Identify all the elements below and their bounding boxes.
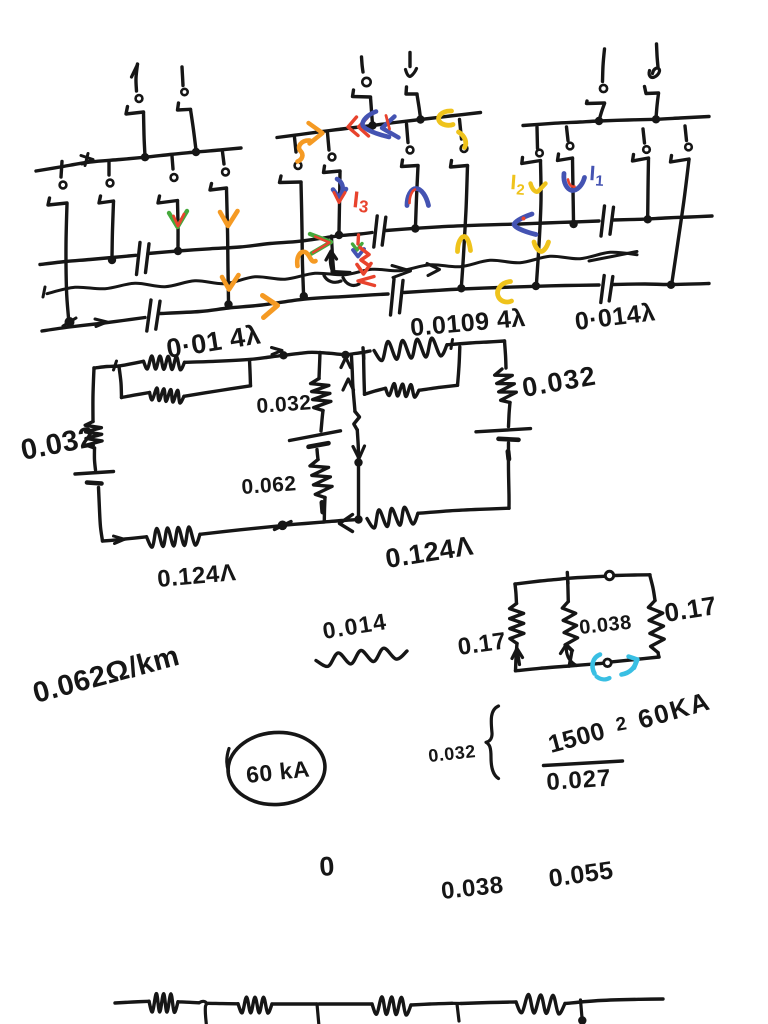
- wire F6 drop to bus: [656, 94, 659, 119]
- wire left edge to battery: [94, 448, 95, 470]
- blue left chevron 2: [382, 117, 399, 138]
- feeder lead F6 right: [657, 44, 659, 67]
- wire inner branch to joint: [184, 386, 251, 397]
- up arrow head V2 mid: [343, 379, 354, 390]
- wire top bus middle group: [277, 113, 481, 138]
- wire top bus left group: [36, 148, 241, 171]
- wire switch M4 drop: [462, 166, 468, 285]
- switch M4 stub: [460, 120, 462, 140]
- wire bottom bus segment 2: [160, 294, 388, 314]
- black up arrow mini left head: [512, 649, 523, 659]
- red double chevron left 1: [348, 117, 358, 136]
- red inner chevron: [313, 237, 330, 253]
- blue down arrow head: [333, 189, 346, 199]
- black arrow foot: [332, 272, 350, 273]
- switch M2 stub: [328, 133, 330, 150]
- mini left edge lower: [516, 644, 518, 671]
- resistor bottom-middle 0.124: [367, 507, 418, 528]
- loop head F6: [649, 68, 659, 77]
- red down arrow head cascade: [357, 264, 371, 275]
- dot at tick 4: [578, 1016, 586, 1024]
- switch D circle: [222, 169, 229, 176]
- wire switch R3 drop: [646, 159, 650, 217]
- switch A blade: [48, 198, 67, 205]
- orange check arrow 2 at switch D: [222, 275, 239, 290]
- wire switch D drop: [227, 189, 229, 301]
- green check arrow at switch C: [169, 211, 187, 227]
- junction dot bottom middle: [354, 515, 362, 523]
- black arc 1 under fault: [324, 276, 341, 283]
- tick hanging 3: [457, 1004, 459, 1021]
- junction dot A-bottom: [65, 317, 75, 327]
- svg-text:0.032: 0.032: [256, 391, 313, 418]
- switch blade F1 left: [126, 107, 144, 115]
- feeder lead F1 left: [136, 64, 138, 91]
- junction dot R1-bottom: [532, 282, 540, 290]
- switch M1 circle: [295, 162, 302, 169]
- wire switch M1 drop: [301, 183, 304, 294]
- junction dot F4-bus: [416, 115, 424, 123]
- wire left edge lower: [99, 488, 103, 542]
- wire bottom bus segment 3: [404, 285, 599, 293]
- yellow hook on middle bus: [439, 111, 453, 125]
- resistor mini right 0.17: [648, 601, 664, 653]
- switch M1 blade: [280, 176, 302, 183]
- wire mid bus segment 3: [386, 221, 599, 231]
- junction dot M4-bottom: [457, 284, 465, 292]
- red accent near blue chevron: [386, 116, 390, 130]
- resistor V1 0.032: [311, 379, 331, 411]
- switch M4 circle: [461, 145, 468, 152]
- junction dot R4-bottom: [667, 281, 675, 289]
- capacitor on bottom bus middle: [391, 279, 395, 315]
- black ccw arrow mini middle: [566, 649, 576, 666]
- red tick above cascade: [356, 235, 360, 244]
- bottom strip wire 8: [565, 999, 663, 1004]
- red zigzag down arrow: [360, 248, 370, 267]
- mini middle branch lower: [569, 651, 572, 667]
- wire bottom bus segment 4: [613, 284, 709, 285]
- wire inner branch left across: [122, 393, 150, 398]
- switch R3 circle: [643, 146, 650, 153]
- bottom strip wire 7: [461, 1002, 516, 1004]
- cyan arrow right of terminal: [622, 660, 637, 675]
- mini bottom wire right: [569, 663, 603, 666]
- switch B stub: [107, 162, 110, 176]
- switch B circle: [107, 180, 114, 187]
- wire mid bus segment 2: [148, 233, 372, 254]
- switch R2 blade: [558, 154, 573, 161]
- wire V2 to bottom: [357, 463, 360, 519]
- black arc 2 under fault: [343, 278, 359, 286]
- wire V1 from top: [319, 353, 320, 379]
- ellipse flick: [227, 749, 229, 772]
- junction dot F6-bus: [652, 115, 660, 123]
- wire switch C drop: [176, 201, 180, 248]
- wire F1 drop to bus: [144, 113, 146, 157]
- tick at left end of top bus: [85, 154, 88, 166]
- bottom strip wire 6: [411, 1003, 452, 1005]
- terminal circle top: [605, 571, 613, 579]
- feeder lead F2 left: [182, 67, 183, 86]
- switch M3 blade: [402, 160, 419, 167]
- switch D blade: [210, 184, 227, 191]
- wire circuit bottom left: [103, 537, 147, 541]
- arrow on left top bus: [81, 156, 93, 165]
- arrow tick on top wire: [272, 348, 283, 355]
- red double chevron left 2: [359, 118, 369, 136]
- switch A circle: [60, 182, 67, 189]
- capacitor on bottom bus left: [147, 300, 151, 331]
- junction dot circuit top 1: [279, 351, 287, 359]
- wire inner right across: [365, 388, 386, 394]
- battery mid long plate: [290, 431, 341, 441]
- wire switch A drop: [66, 204, 69, 318]
- feeder lead F4 mid: [408, 53, 411, 67]
- svg-text:0: 0: [318, 851, 336, 882]
- capacitor on mid bus middle: [374, 216, 377, 247]
- switch circle F5 right: [600, 85, 607, 92]
- wavy line start tick: [43, 287, 45, 297]
- resistor mini left 0.17: [510, 604, 524, 644]
- switch circle F3 mid: [362, 78, 370, 86]
- junction dot C-mid: [174, 247, 182, 255]
- bottom strip wire 5: [319, 1002, 372, 1005]
- mini circuit top wire right: [615, 573, 651, 577]
- up arrow head V2 top: [341, 358, 351, 368]
- curly brace: [486, 706, 499, 779]
- wire F3 drop to bus: [371, 98, 373, 125]
- mini right edge lower: [658, 653, 659, 658]
- wire mid bus segment 4: [613, 216, 712, 220]
- cyan small arc below terminal: [597, 677, 610, 680]
- junction dot R2-mid: [569, 220, 577, 228]
- switch R2 stub: [567, 127, 569, 141]
- wire V1 to bottom: [323, 498, 327, 522]
- resistor mini middle 0.038: [562, 602, 577, 651]
- resistor parallel lower-left: [150, 388, 185, 403]
- red accent in blue U: [568, 180, 575, 187]
- switch M3 stub: [407, 124, 409, 143]
- feeder lead F5 right: [603, 49, 605, 82]
- arrow on wavy line 1: [392, 266, 411, 278]
- wire switch R4 drop: [672, 160, 689, 283]
- junction dot F2-bus: [192, 148, 200, 156]
- wire after upper-left resistor: [185, 356, 283, 363]
- switch C blade: [158, 196, 178, 203]
- blue U arrow at switch R2: [564, 174, 585, 191]
- switch R1 stub: [535, 127, 539, 149]
- tick hanging 4: [581, 1000, 583, 1018]
- fraction bar: [544, 761, 623, 766]
- bottom strip resistor 1: [149, 994, 178, 1013]
- wire to top-right corner: [447, 341, 505, 345]
- red down arrow head at M2: [334, 193, 345, 203]
- wire F2 drop to bus: [191, 110, 197, 151]
- switch M3 circle: [407, 147, 414, 154]
- bottom strip wire 3: [207, 1002, 238, 1006]
- resistor parallel upper-left: [144, 356, 185, 370]
- feeder F1 arrow tick: [132, 65, 138, 78]
- red accent at M3 arc: [410, 190, 416, 204]
- wire to right parallel pair: [346, 351, 371, 355]
- arrow tick on bottom wire: [114, 536, 125, 544]
- junction dot F3-bus: [368, 121, 376, 129]
- junction dot F5-bus: [595, 117, 603, 125]
- bottom strip wire 2: [178, 1002, 199, 1003]
- tick hanging 3 bar: [452, 1002, 461, 1005]
- switch circle F1 left: [136, 95, 143, 102]
- svg-text:0.062: 0.062: [241, 472, 298, 499]
- resistor V1b 0.062: [310, 460, 332, 498]
- switch M2 circle: [329, 154, 336, 161]
- bottom strip wire 1: [115, 1001, 149, 1003]
- blue big left chevron: [363, 112, 390, 138]
- wire bottom bus segment 1: [42, 318, 145, 332]
- switch blade F3 mid: [353, 90, 371, 97]
- junction dot M2-mid: [335, 231, 343, 239]
- wire mid bus segment 1: [40, 255, 136, 264]
- terminal circle bottom: [604, 659, 612, 667]
- switch blade F5 right: [587, 101, 605, 104]
- bottom strip resistor 4: [516, 994, 565, 1013]
- junction dot M3-mid: [411, 224, 419, 232]
- resistor parallel upper-right: [374, 338, 447, 360]
- wire switch M3 drop: [416, 166, 419, 226]
- mini bottom wire: [516, 666, 570, 671]
- stub tick right pair: [361, 348, 365, 359]
- svg-text:0.027: 0.027: [546, 765, 613, 796]
- capacitor on bottom bus right: [601, 276, 604, 303]
- wire V2 jog: [354, 412, 360, 431]
- resistor parallel lower-right: [386, 384, 420, 398]
- wire bottom to right corner: [418, 508, 509, 513]
- switch B blade: [99, 196, 114, 203]
- switch M4 blade: [451, 161, 468, 168]
- battery right long plate: [476, 429, 531, 432]
- wire F5 drop to bus: [600, 104, 605, 120]
- blue small check cascade: [353, 249, 364, 257]
- junction dot M1-bottom: [300, 292, 308, 300]
- wire V1 to battery: [321, 411, 323, 432]
- mini left edge upper: [515, 584, 517, 604]
- junction dot circuit top 2: [341, 351, 349, 359]
- fork head F4: [406, 69, 417, 77]
- switch R3 blade: [633, 155, 649, 162]
- switch blade F4 mid: [406, 87, 417, 94]
- switch C stub: [172, 156, 173, 169]
- wire top bus right group: [523, 117, 709, 126]
- tick on top wire: [114, 361, 117, 370]
- switch R3 stub: [643, 129, 645, 143]
- orange big chevron on bottom bus: [263, 296, 278, 318]
- loop tick hanging 1: [199, 1001, 206, 1024]
- junction X dot bottom: [278, 521, 288, 531]
- scribble on X dot: [275, 522, 292, 530]
- feeder lead F3 mid: [362, 57, 364, 72]
- yellow up arc at switch M4: [458, 236, 471, 251]
- blue left chevron on right mid bus: [514, 214, 536, 235]
- switch A stub: [61, 162, 62, 178]
- wavy line end fork: [589, 252, 637, 262]
- black up arrow head: [326, 251, 337, 260]
- ellipse around 60kA: [226, 729, 328, 808]
- mini bottom wire far right: [613, 657, 660, 662]
- switch R4 stub: [685, 126, 687, 141]
- yellow C hook on bottom bus: [498, 282, 512, 303]
- black up arrow shaft: [330, 253, 332, 271]
- junction dot F1-bus: [141, 153, 149, 161]
- cyan arc left of terminal: [592, 655, 600, 674]
- switch D stub: [223, 152, 225, 164]
- switch blade F6 right: [645, 87, 659, 94]
- junction dot D-bottom: [224, 300, 232, 308]
- switch R4 circle: [685, 144, 692, 151]
- mini circuit top wire: [515, 576, 604, 584]
- tick hanging 2: [317, 1004, 319, 1024]
- mini middle branch upper: [566, 578, 570, 601]
- wire right edge lower: [507, 443, 511, 508]
- wire F4 drop to bus: [417, 95, 421, 119]
- wire inner right rise: [458, 347, 460, 385]
- yellow check after I2: [531, 184, 546, 192]
- switch circle F2 left: [181, 89, 187, 95]
- battery right short plate: [499, 439, 519, 440]
- battery left long plate: [75, 472, 114, 475]
- capacitor on mid bus left: [137, 243, 141, 275]
- wire inner branch rise: [250, 360, 251, 386]
- orange check arrow at switch D: [220, 211, 238, 226]
- yellow curl below: [459, 132, 466, 148]
- wire right edge to battery: [509, 403, 511, 427]
- wire bottom middle span: [283, 520, 358, 526]
- switch blade F2 left: [178, 103, 191, 110]
- resistor right edge 0.032: [495, 369, 517, 403]
- black ccw arrow head: [561, 645, 573, 654]
- wire circuit left edge upper: [93, 368, 94, 422]
- green small check cascade: [353, 244, 363, 251]
- orange squiggle left of green chevron: [297, 252, 315, 266]
- yellow down check at switch R1: [534, 242, 549, 252]
- wire switch R2 drop: [573, 159, 574, 222]
- wire circuit top-left corner: [94, 361, 144, 368]
- down arrow head V2: [353, 446, 365, 459]
- tick at mini top junction: [566, 573, 570, 584]
- wire inner branch left down: [119, 367, 122, 398]
- green right chevron: [310, 234, 331, 254]
- battery left short plate: [87, 483, 102, 484]
- black left chevron on bottom wire: [340, 515, 353, 532]
- wire inner right down: [364, 352, 365, 394]
- mini right edge upper: [650, 575, 655, 601]
- fault stub below mid bus: [332, 236, 335, 274]
- resistor bottom-left 0.124: [147, 527, 201, 547]
- switch R1 circle: [536, 150, 543, 157]
- red underline chevron: [358, 277, 375, 286]
- bottom strip resistor 3: [372, 997, 411, 1015]
- switch R2 circle: [567, 143, 574, 150]
- resistor left edge 0.032: [85, 422, 102, 449]
- orange chevron on middle top bus: [309, 123, 323, 144]
- wire switch R1 drop: [537, 161, 542, 283]
- wire V1 below battery: [317, 450, 318, 460]
- switch M1 stub: [295, 138, 297, 153]
- switch M2 blade: [324, 166, 341, 173]
- bottom strip wire 4: [272, 1002, 317, 1005]
- black up arrow mini left shaft: [517, 650, 519, 665]
- switch C circle: [171, 174, 178, 181]
- orange squiggle below middle bus end: [298, 140, 311, 161]
- arrow on wavy line 2: [427, 264, 440, 276]
- arrow on bottom bus left: [95, 319, 107, 327]
- switch R1 blade: [522, 158, 541, 164]
- capacitor on mid bus right: [601, 206, 605, 236]
- blue up arc at switch M3: [407, 189, 429, 206]
- wire inner right to joint: [419, 385, 458, 390]
- battery mid short plate: [309, 443, 329, 447]
- red check inner at switch C: [174, 214, 185, 226]
- junction dot B-mid: [108, 256, 116, 264]
- tick on top wire right: [451, 340, 453, 349]
- red dot at blue chevron: [522, 217, 526, 221]
- wire V2 lower: [357, 430, 358, 461]
- wire right edge upper: [505, 341, 507, 368]
- wire switch M2 drop: [339, 172, 340, 233]
- junction dot R3-mid: [644, 215, 652, 223]
- small resistor squiggle: [316, 648, 407, 666]
- scribble on dot A: [63, 318, 76, 326]
- junction dot V2: [354, 458, 362, 466]
- bold tick on right edge: [506, 452, 512, 460]
- freehand wavy line: [47, 252, 637, 294]
- wire bottom to X node: [200, 526, 280, 535]
- wire V2 upper: [352, 357, 356, 412]
- wire switch B drop: [112, 202, 114, 258]
- wire top middle span: [284, 352, 345, 355]
- switch R4 blade: [671, 156, 690, 163]
- cyan arrow head: [629, 657, 638, 669]
- bottom strip resistor 2: [238, 997, 272, 1013]
- bold tick beside V1b: [320, 503, 326, 513]
- blue down arrow at switch M2: [337, 179, 343, 195]
